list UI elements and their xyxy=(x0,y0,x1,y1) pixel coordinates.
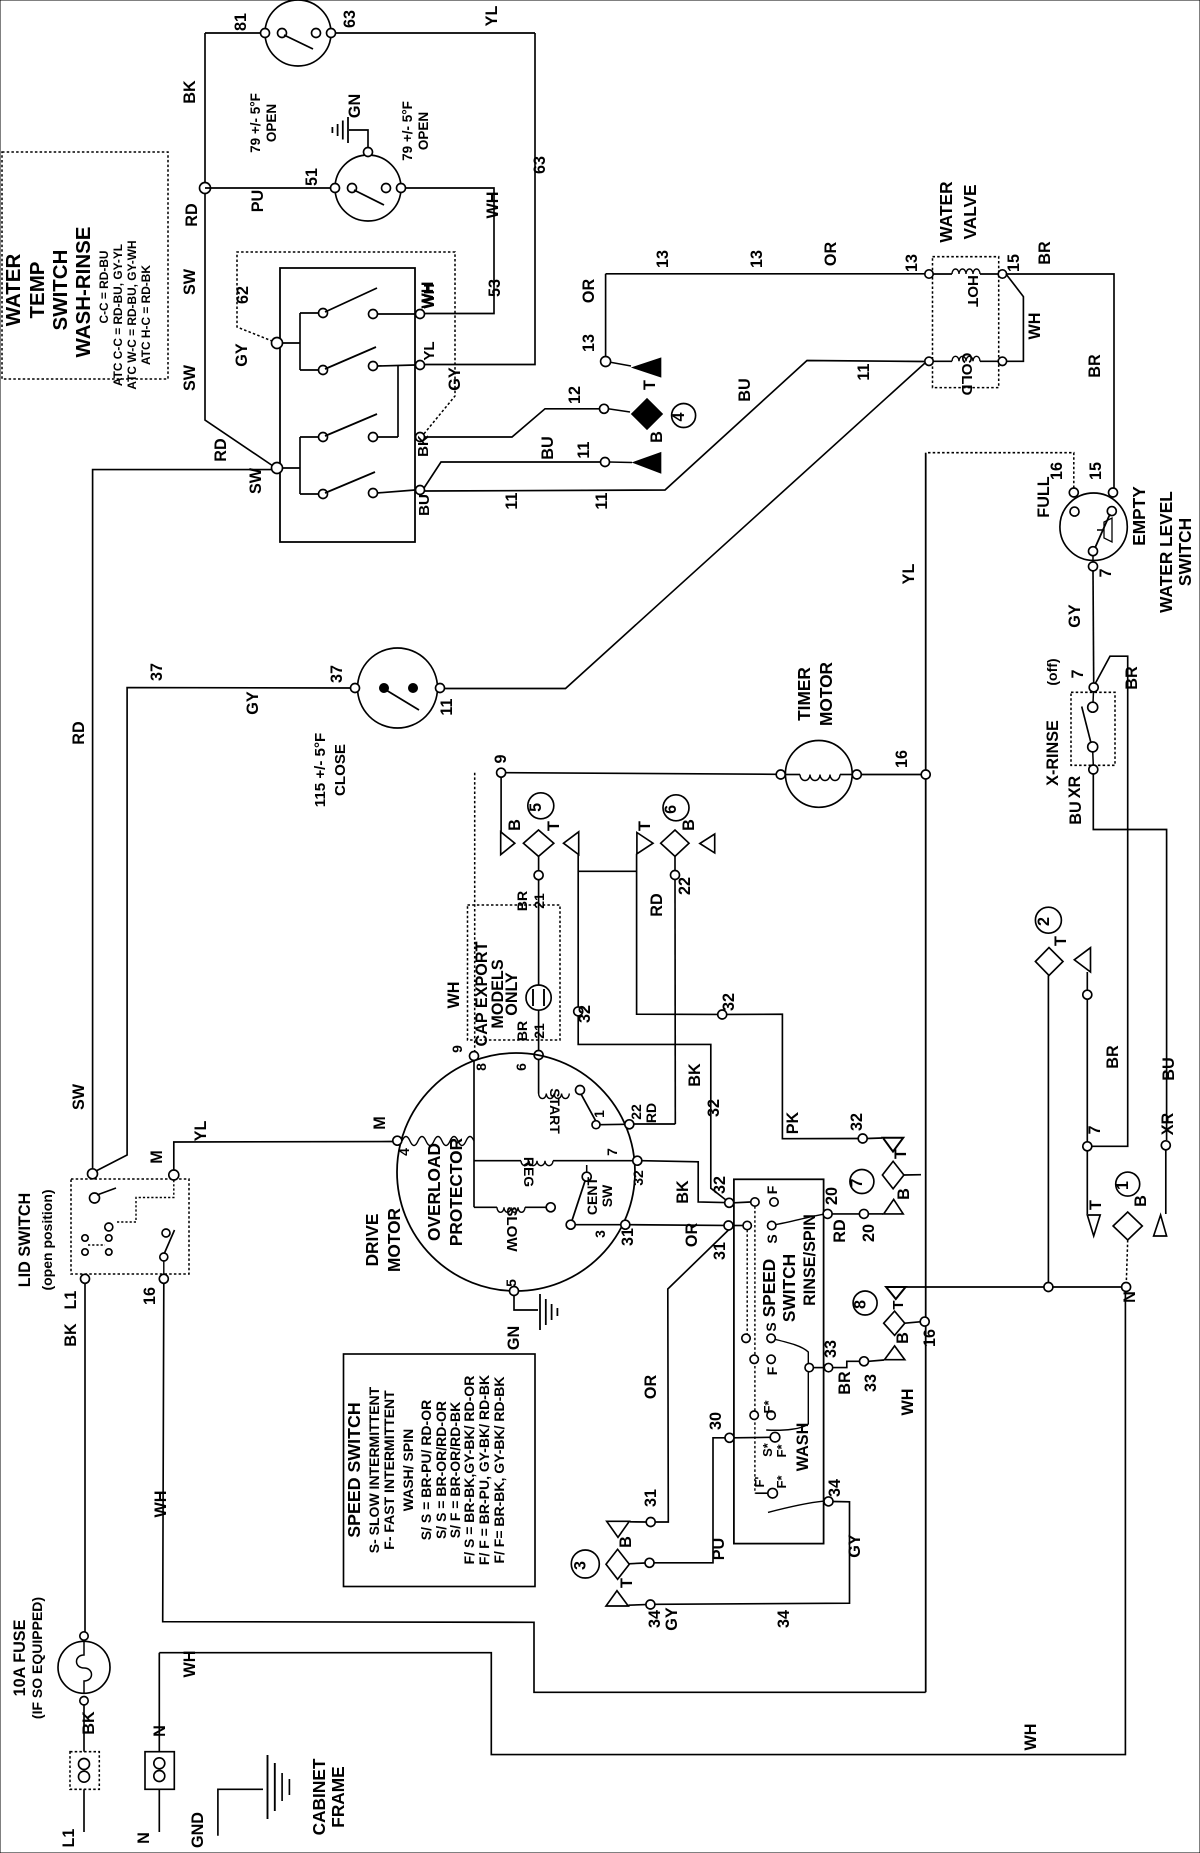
svg-text:T: T xyxy=(641,380,659,390)
svg-text:RD: RD xyxy=(648,893,666,917)
svg-text:6: 6 xyxy=(662,805,680,814)
svg-text:BR: BR xyxy=(514,891,530,911)
svg-text:6: 6 xyxy=(513,1063,529,1071)
svg-text:VALVE: VALVE xyxy=(960,184,980,239)
svg-text:T: T xyxy=(545,821,563,831)
svg-text:GY: GY xyxy=(846,1534,864,1558)
svg-text:BR: BR xyxy=(1086,354,1104,378)
svg-text:PROTECTOR: PROTECTOR xyxy=(446,1137,466,1246)
svg-text:8: 8 xyxy=(851,1300,869,1309)
svg-text:WH: WH xyxy=(484,192,502,219)
svg-text:REG: REG xyxy=(521,1157,537,1187)
svg-text:WH: WH xyxy=(1026,313,1044,340)
svg-text:BU: BU xyxy=(416,494,433,516)
svg-text:13: 13 xyxy=(903,254,921,272)
svg-text:OR: OR xyxy=(822,242,840,267)
svg-text:BR: BR xyxy=(514,1021,530,1041)
svg-text:GY: GY xyxy=(1066,604,1084,628)
svg-text:34: 34 xyxy=(826,1479,844,1497)
svg-text:L1: L1 xyxy=(62,1291,80,1310)
svg-text:S/ S = BR-PU/ RD-OR: S/ S = BR-PU/ RD-OR xyxy=(418,1400,434,1540)
svg-text:11: 11 xyxy=(438,698,456,715)
svg-text:F/ F= BR-BK, GY-BK/ RD-BK: F/ F= BR-BK, GY-BK/ RD-BK xyxy=(491,1376,507,1563)
svg-text:F/ S = BR-BK,GY-BK/ RD-OR: F/ S = BR-BK,GY-BK/ RD-OR xyxy=(461,1376,477,1565)
svg-text:GY: GY xyxy=(233,343,251,367)
svg-text:M: M xyxy=(148,1150,166,1163)
svg-text:YL: YL xyxy=(483,6,501,27)
svg-text:33: 33 xyxy=(862,1374,880,1392)
svg-text:S- SLOW INTERMITTENT: S- SLOW INTERMITTENT xyxy=(366,1386,382,1553)
svg-text:YL: YL xyxy=(192,1121,210,1142)
svg-text:GY: GY xyxy=(663,1607,681,1631)
svg-text:B: B xyxy=(617,1536,635,1548)
svg-text:RD: RD xyxy=(212,438,230,462)
svg-text:13: 13 xyxy=(580,334,598,352)
svg-text:SW: SW xyxy=(247,467,265,494)
svg-text:S*: S* xyxy=(760,1442,775,1457)
svg-text:32: 32 xyxy=(720,993,738,1011)
svg-text:BR: BR xyxy=(836,1371,854,1395)
svg-text:SW: SW xyxy=(181,364,199,391)
svg-text:32: 32 xyxy=(630,1170,646,1186)
svg-text:1: 1 xyxy=(1114,1181,1132,1190)
svg-text:RD: RD xyxy=(70,721,88,745)
svg-text:XR: XR xyxy=(1066,775,1084,798)
svg-text:3: 3 xyxy=(572,1561,590,1570)
svg-text:79 +/- 5°F: 79 +/- 5°F xyxy=(248,93,263,153)
svg-text:BU: BU xyxy=(1067,801,1085,824)
svg-text:CABINET: CABINET xyxy=(309,1758,329,1835)
svg-text:GY: GY xyxy=(446,367,464,391)
svg-text:S: S xyxy=(764,1234,780,1243)
svg-text:WASH/ SPIN: WASH/ SPIN xyxy=(400,1429,416,1511)
svg-text:11: 11 xyxy=(593,492,611,509)
svg-text:F/ F = BR-PU, GY-BK/ RD-BK: F/ F = BR-PU, GY-BK/ RD-BK xyxy=(476,1375,492,1565)
svg-text:7: 7 xyxy=(1086,1125,1104,1134)
svg-text:79 +/- 5°F: 79 +/- 5°F xyxy=(400,101,415,161)
svg-text:16: 16 xyxy=(1048,462,1066,480)
svg-text:OVERLOAD: OVERLOAD xyxy=(424,1143,444,1241)
svg-text:22: 22 xyxy=(628,1104,644,1120)
svg-text:20: 20 xyxy=(860,1224,878,1242)
svg-text:31: 31 xyxy=(619,1228,637,1246)
svg-text:11: 11 xyxy=(575,441,593,458)
svg-text:32: 32 xyxy=(848,1113,866,1131)
svg-text:4: 4 xyxy=(396,1148,412,1156)
svg-text:CENT: CENT xyxy=(584,1177,600,1216)
svg-text:CLOSE: CLOSE xyxy=(332,744,349,796)
svg-text:OR: OR xyxy=(580,279,598,304)
svg-text:31: 31 xyxy=(642,1489,660,1507)
svg-text:(off): (off) xyxy=(1044,658,1060,685)
svg-text:L1: L1 xyxy=(60,1829,78,1848)
svg-text:22: 22 xyxy=(676,877,694,895)
svg-text:LID SWITCH: LID SWITCH xyxy=(16,1193,34,1287)
svg-text:WASH-RINSE: WASH-RINSE xyxy=(72,227,95,358)
svg-text:SPEED SWITCH: SPEED SWITCH xyxy=(344,1402,364,1537)
svg-text:32: 32 xyxy=(705,1099,723,1117)
svg-text:WASH: WASH xyxy=(794,1423,812,1472)
svg-text:SWITCH: SWITCH xyxy=(49,250,72,331)
svg-text:HOT: HOT xyxy=(964,275,981,308)
svg-text:BU: BU xyxy=(1160,1057,1178,1080)
svg-text:SW: SW xyxy=(181,268,199,295)
svg-text:T: T xyxy=(892,1149,910,1159)
svg-text:BU: BU xyxy=(539,436,557,459)
svg-text:SWITCH: SWITCH xyxy=(779,1254,799,1322)
svg-text:OR: OR xyxy=(683,1223,701,1248)
svg-text:ONLY: ONLY xyxy=(503,972,521,1016)
svg-text:RINSE/SPIN: RINSE/SPIN xyxy=(801,1214,819,1306)
svg-text:B: B xyxy=(506,819,524,831)
svg-text:15: 15 xyxy=(1087,462,1105,480)
svg-text:PU: PU xyxy=(249,190,267,213)
svg-text:RD: RD xyxy=(831,1219,849,1243)
svg-text:11: 11 xyxy=(855,363,873,380)
svg-text:F*: F* xyxy=(774,1444,789,1458)
svg-text:53: 53 xyxy=(486,279,504,297)
svg-text:WH: WH xyxy=(181,1651,199,1678)
svg-text:BK: BK xyxy=(62,1323,80,1347)
svg-text:WH: WH xyxy=(899,1389,917,1416)
svg-text:START: START xyxy=(547,1088,563,1134)
svg-text:GN: GN xyxy=(346,94,364,118)
svg-text:SWITCH: SWITCH xyxy=(1175,518,1195,586)
svg-text:63: 63 xyxy=(341,10,359,28)
svg-text:WH: WH xyxy=(1022,1724,1040,1751)
svg-text:T: T xyxy=(636,821,654,831)
svg-text:ATC W-C = RD-BU, GY-WH: ATC W-C = RD-BU, GY-WH xyxy=(125,240,139,389)
svg-text:7: 7 xyxy=(848,1178,866,1187)
svg-text:2: 2 xyxy=(1035,917,1053,926)
svg-text:T: T xyxy=(1052,936,1070,946)
svg-text:F': F' xyxy=(752,1476,767,1487)
svg-text:YL: YL xyxy=(900,564,918,585)
svg-text:11: 11 xyxy=(503,492,521,509)
svg-text:BK: BK xyxy=(415,435,432,457)
svg-text:ATC H-C = RD-BK: ATC H-C = RD-BK xyxy=(139,265,153,365)
svg-text:YL: YL xyxy=(421,341,438,360)
svg-text:10A FUSE: 10A FUSE xyxy=(11,1619,29,1696)
svg-text:T: T xyxy=(890,1300,907,1310)
svg-text:81: 81 xyxy=(232,13,250,31)
svg-text:21: 21 xyxy=(531,893,547,909)
svg-text:16: 16 xyxy=(141,1287,159,1305)
svg-text:21: 21 xyxy=(531,1023,547,1039)
svg-text:B: B xyxy=(894,1332,912,1344)
svg-text:32: 32 xyxy=(711,1176,729,1194)
svg-text:MOTOR: MOTOR xyxy=(384,1207,404,1272)
svg-text:RD: RD xyxy=(183,203,201,227)
svg-text:GY: GY xyxy=(244,691,262,715)
svg-text:FRAME: FRAME xyxy=(328,1766,348,1827)
svg-text:WATER LEVEL: WATER LEVEL xyxy=(1156,491,1176,613)
svg-text:F*: F* xyxy=(774,1475,789,1489)
svg-text:EMPTY: EMPTY xyxy=(1129,486,1149,546)
svg-text:32: 32 xyxy=(576,1005,594,1023)
svg-text:BR: BR xyxy=(1104,1045,1122,1069)
svg-text:N: N xyxy=(135,1832,153,1844)
svg-text:SPEED: SPEED xyxy=(759,1259,779,1318)
svg-text:F: F xyxy=(764,1185,780,1194)
svg-text:S: S xyxy=(763,1322,779,1331)
svg-text:M: M xyxy=(371,1116,389,1129)
svg-text:(open position): (open position) xyxy=(39,1189,55,1290)
svg-text:115 +/- 5°F: 115 +/- 5°F xyxy=(312,733,329,807)
svg-text:B: B xyxy=(648,431,666,443)
svg-text:BU: BU xyxy=(736,378,754,401)
svg-text:16: 16 xyxy=(893,750,911,768)
svg-text:16: 16 xyxy=(921,1329,939,1347)
svg-text:PU: PU xyxy=(710,1538,728,1561)
svg-text:9: 9 xyxy=(449,1045,465,1053)
svg-text:TEMP: TEMP xyxy=(26,262,49,319)
svg-text:X-RINSE: X-RINSE xyxy=(1044,720,1062,786)
svg-text:RD: RD xyxy=(643,1103,659,1123)
svg-text:5: 5 xyxy=(527,803,545,812)
svg-text:4: 4 xyxy=(670,412,688,421)
svg-text:PK: PK xyxy=(784,1111,802,1134)
svg-text:XR: XR xyxy=(1159,1112,1177,1135)
svg-text:20: 20 xyxy=(823,1187,841,1205)
svg-text:13: 13 xyxy=(654,250,672,268)
svg-text:OR: OR xyxy=(642,1375,660,1400)
svg-text:34: 34 xyxy=(646,1610,664,1628)
svg-text:13: 13 xyxy=(748,250,766,268)
svg-text:B: B xyxy=(1132,1195,1150,1207)
svg-text:12: 12 xyxy=(566,386,584,404)
svg-text:7: 7 xyxy=(604,1148,620,1156)
svg-text:F*: F* xyxy=(761,1400,776,1414)
svg-text:9: 9 xyxy=(492,754,510,763)
svg-text:51: 51 xyxy=(303,168,321,186)
svg-text:F: F xyxy=(764,1366,780,1375)
svg-text:MOTOR: MOTOR xyxy=(816,661,836,726)
svg-text:N: N xyxy=(151,1725,169,1737)
svg-text:WATER: WATER xyxy=(936,181,956,243)
svg-text:T: T xyxy=(1087,1200,1105,1210)
svg-text:63: 63 xyxy=(531,156,549,174)
svg-text:WH: WH xyxy=(445,982,463,1009)
svg-text:34: 34 xyxy=(775,1610,793,1628)
svg-text:T: T xyxy=(618,1578,636,1588)
svg-text:GN: GN xyxy=(505,1326,523,1350)
svg-text:5: 5 xyxy=(503,1279,519,1287)
svg-text:37: 37 xyxy=(148,663,166,681)
svg-text:BK: BK xyxy=(674,1180,692,1204)
svg-text:7: 7 xyxy=(1069,669,1087,678)
svg-text:SW: SW xyxy=(70,1083,88,1110)
svg-text:OPEN: OPEN xyxy=(264,104,279,142)
svg-text:BR: BR xyxy=(1123,666,1141,690)
svg-text:B: B xyxy=(895,1188,913,1200)
svg-text:62: 62 xyxy=(234,286,252,304)
svg-text:37: 37 xyxy=(328,665,346,683)
svg-text:SW: SW xyxy=(599,1184,615,1207)
svg-text:N: N xyxy=(1121,1291,1139,1303)
svg-text:C-C = RD-BU: C-C = RD-BU xyxy=(97,251,111,324)
svg-text:OPEN: OPEN xyxy=(416,112,431,150)
svg-text:BK: BK xyxy=(686,1063,704,1087)
svg-text:WATER: WATER xyxy=(2,254,25,327)
svg-text:BR: BR xyxy=(1036,241,1054,265)
svg-text:BK: BK xyxy=(181,80,199,104)
svg-text:WH: WH xyxy=(421,283,438,308)
svg-text:30: 30 xyxy=(707,1412,725,1430)
svg-text:1: 1 xyxy=(591,1110,607,1118)
svg-text:7: 7 xyxy=(1097,568,1115,577)
svg-text:SLOW: SLOW xyxy=(503,1206,520,1252)
svg-text:F- FAST INTERMITTENT: F- FAST INTERMITTENT xyxy=(381,1390,397,1550)
svg-text:3: 3 xyxy=(592,1230,608,1238)
svg-text:8: 8 xyxy=(473,1063,489,1071)
svg-text:FULL: FULL xyxy=(1035,476,1053,517)
svg-text:TIMER: TIMER xyxy=(794,667,814,721)
svg-text:GND: GND xyxy=(189,1812,207,1848)
svg-text:WH: WH xyxy=(152,1491,170,1518)
svg-text:15: 15 xyxy=(1005,254,1023,272)
svg-text:ATC C-C = RD-BU, GY-YL: ATC C-C = RD-BU, GY-YL xyxy=(111,244,125,386)
svg-text:DRIVE: DRIVE xyxy=(362,1214,382,1267)
svg-text:(IF SO EQUIPPED): (IF SO EQUIPPED) xyxy=(29,1597,45,1719)
svg-text:33: 33 xyxy=(822,1340,840,1358)
svg-text:COLD: COLD xyxy=(958,353,975,396)
svg-text:BK: BK xyxy=(80,1711,98,1735)
svg-text:B: B xyxy=(680,819,698,831)
